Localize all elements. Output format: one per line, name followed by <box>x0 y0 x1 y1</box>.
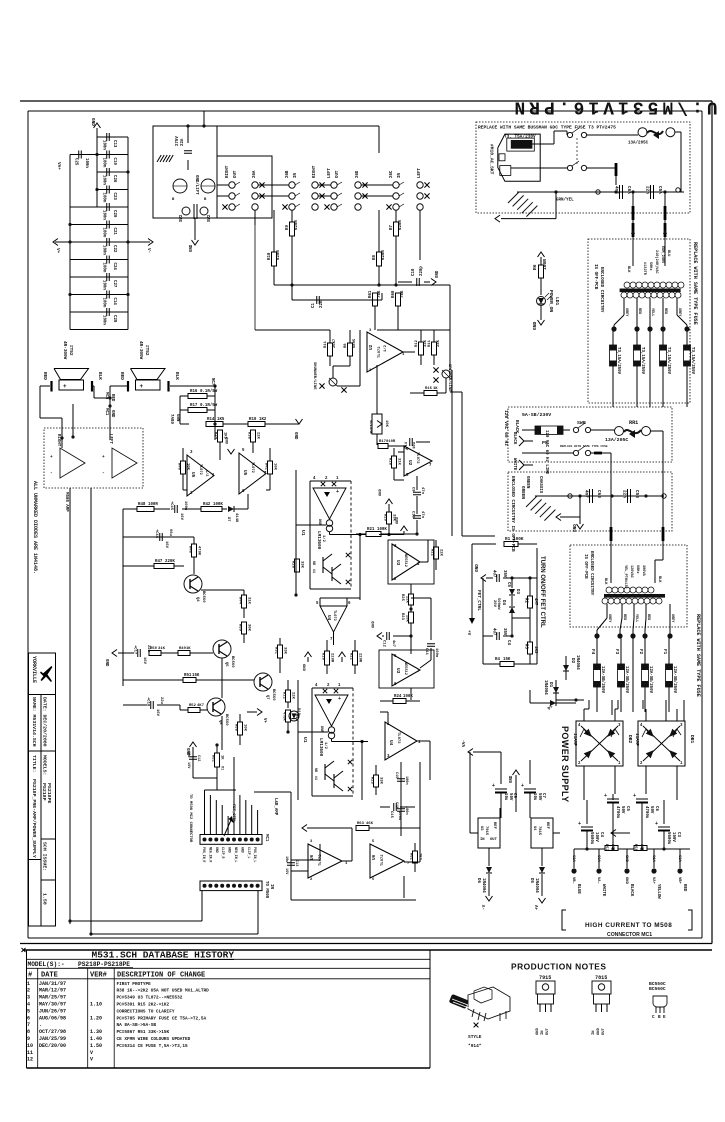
svg-text:GND/LIFT: GND/LIFT <box>194 175 199 195</box>
svg-text:+: + <box>50 455 53 460</box>
svg-text:R23: R23 <box>400 613 404 621</box>
svg-text:4n7: 4n7 <box>584 490 589 498</box>
svg-text:33K: 33K <box>379 777 383 785</box>
svg-text:MAR/12/97: MAR/12/97 <box>39 988 66 994</box>
svg-text:NC7: NC7 <box>210 378 214 386</box>
svg-text:C26: C26 <box>112 175 116 183</box>
svg-text:10K: 10K <box>243 724 247 732</box>
svg-text:100n: 100n <box>397 811 401 821</box>
svg-text:OUT: OUT <box>336 170 340 178</box>
svg-text:C24: C24 <box>112 263 116 271</box>
svg-text:EDM_240V: EDM_240V <box>660 246 664 264</box>
svg-text:U3: U3 <box>395 668 401 674</box>
svg-text:JAN/31/97: JAN/31/97 <box>39 981 66 987</box>
svg-text:YORKVILLE: YORKVILLE <box>31 656 37 683</box>
svg-text:+: + <box>633 793 636 799</box>
svg-text:U3: U3 <box>395 560 401 566</box>
svg-text:TL072: TL072 <box>396 732 400 744</box>
svg-text:U6: U6 <box>309 854 315 860</box>
svg-text:BC560: BC560 <box>224 714 228 726</box>
svg-text:RED: RED <box>663 308 667 314</box>
svg-text:76K: 76K <box>378 290 382 298</box>
svg-text:BLK: BLK <box>174 372 179 380</box>
svg-text:30K: 30K <box>247 624 251 632</box>
svg-text:BLACK: BLACK <box>629 884 633 897</box>
svg-text:X1: X1 <box>220 766 224 770</box>
svg-text:U5: U5 <box>242 470 248 476</box>
svg-text:100R: 100R <box>542 259 548 270</box>
svg-text:STYLE: STYLE <box>468 1034 482 1040</box>
svg-text:R14: R14 <box>214 432 218 440</box>
svg-text:R62: R62 <box>409 853 413 861</box>
svg-text:VA-: VA- <box>463 740 467 747</box>
svg-text:22K: 22K <box>256 432 260 440</box>
svg-text:GND: GND <box>573 524 578 532</box>
svg-text:PC#5867 R51 33K->15K: PC#5867 R51 33K->15K <box>117 1030 170 1035</box>
svg-text:1K: 1K <box>433 387 438 391</box>
svg-text:120VAC: 120VAC <box>629 565 633 579</box>
svg-text:33K: 33K <box>424 339 428 347</box>
svg-text:1K5: 1K5 <box>217 418 225 422</box>
svg-text:GND: GND <box>215 847 219 853</box>
svg-text:RIGHT: RIGHT <box>226 165 230 178</box>
svg-text:BLK: BLK <box>603 578 607 585</box>
svg-text:PC#5349 U3 TL072-->NE5532: PC#5349 U3 TL072-->NE5532 <box>117 996 183 1001</box>
svg-text:NE5512: NE5512 <box>403 662 407 675</box>
svg-text:L&R_AMP: L&R_AMP <box>273 798 277 816</box>
svg-text:C1: C1 <box>312 303 316 308</box>
svg-text:OCT/27/98: OCT/27/98 <box>39 1029 66 1035</box>
svg-text:31K: 31K <box>397 458 401 466</box>
svg-text:R58: R58 <box>234 724 238 732</box>
svg-text:210(240)VAC: 210(240)VAC <box>654 250 659 274</box>
svg-text:SCH ISSUE:: SCH ISSUE: <box>42 842 48 871</box>
svg-text:100K: 100K <box>513 537 524 542</box>
svg-text:+: + <box>578 821 581 827</box>
svg-text:CE XFMR WIRE COLOURS UPDATED: CE XFMR WIRE COLOURS UPDATED <box>117 1037 191 1042</box>
svg-text:R41: R41 <box>264 463 268 471</box>
svg-text:R25: R25 <box>400 594 404 602</box>
svg-text:620R: 620R <box>399 220 403 230</box>
svg-text:+C16: +C16 <box>154 529 158 539</box>
svg-text:TO M508: TO M508 <box>264 881 268 899</box>
svg-text:U2: U2 <box>368 344 374 350</box>
svg-text:NEG_IN_L: NEG_IN_L <box>234 847 238 862</box>
svg-text:26C: 26C <box>390 170 394 178</box>
svg-text:C23: C23 <box>112 193 116 201</box>
svg-text:MAR/25/97: MAR/25/97 <box>39 995 66 1001</box>
svg-text:35V: 35V <box>502 570 506 578</box>
svg-text:50V: 50V <box>508 793 512 801</box>
svg-text:R56: R56 <box>633 844 637 852</box>
svg-text:NB: NB <box>314 768 318 772</box>
svg-text:ENCLOSED CIRCUITRY: ENCLOSED CIRCUITRY <box>589 551 593 596</box>
svg-text:RIGHT: RIGHT <box>56 434 60 447</box>
svg-text:IS OFF-PCB: IS OFF-PCB <box>593 264 598 290</box>
svg-text:R11: R11 <box>324 340 328 348</box>
svg-text:5A-SB/230V: 5A-SB/230V <box>522 412 551 418</box>
svg-text:NAME: M531V14.SCH: NAME: M531V14.SCH <box>31 697 37 747</box>
svg-text:WHITE: WHITE <box>601 884 605 897</box>
svg-text:T3, T5A/230V: T3, T5A/230V <box>504 135 536 140</box>
svg-text:F3: F3 <box>614 649 619 655</box>
svg-text:C: C <box>652 1015 655 1020</box>
svg-text:U4: U4 <box>388 740 394 746</box>
svg-text:50V: 50V <box>649 806 653 814</box>
svg-text:22n: 22n <box>645 186 650 194</box>
svg-text:100n: 100n <box>102 245 106 255</box>
svg-text:SW2: SW2 <box>180 214 184 222</box>
svg-text:BLU: BLU <box>666 250 670 256</box>
svg-text:GND: GND <box>510 775 514 783</box>
svg-text:100n: 100n <box>102 210 106 220</box>
svg-text:10u: 10u <box>532 793 536 801</box>
svg-text:U1: U1 <box>300 530 306 536</box>
svg-text:AUG/06/98: AUG/06/98 <box>39 1015 66 1021</box>
svg-text:620R: 620R <box>295 220 299 230</box>
svg-text:YELLOW: YELLOW <box>656 884 660 899</box>
svg-text:*914*: *914* <box>468 1043 482 1049</box>
svg-text:50V: 50V <box>620 806 624 814</box>
svg-text:11AMP: 11AMP <box>634 733 639 746</box>
svg-text:GND: GND <box>372 620 376 628</box>
svg-text:275V: 275V <box>176 136 180 146</box>
svg-text:+: + <box>655 821 658 827</box>
svg-text:C19: C19 <box>112 158 116 166</box>
svg-text:100K: 100K <box>213 503 223 507</box>
svg-text:12A-SB/250V: 12A-SB/250V <box>648 666 653 694</box>
svg-text:R42: R42 <box>203 503 211 507</box>
svg-text:+: + <box>521 783 524 789</box>
svg-text:1K3: 1K3 <box>533 646 537 654</box>
svg-text:4700u: 4700u <box>644 806 648 819</box>
svg-text:GND: GND <box>301 664 305 672</box>
svg-text:U2: U2 <box>479 826 483 831</box>
svg-text:1.20: 1.20 <box>90 1015 102 1021</box>
svg-text:CONNECTOR MC1: CONNECTOR MC1 <box>607 932 652 938</box>
svg-text:R59: R59 <box>238 624 242 632</box>
svg-text:.: . <box>39 1022 42 1028</box>
svg-text:C6: C6 <box>654 806 658 811</box>
svg-text:4n7: 4n7 <box>614 186 619 194</box>
svg-text:R12: R12 <box>282 692 286 700</box>
svg-text:PC#5391 R15 2K2->1K2: PC#5391 R15 2K2->1K2 <box>117 1003 170 1008</box>
svg-text:C10: C10 <box>411 511 415 519</box>
svg-text:15K: 15K <box>503 658 511 662</box>
svg-text:Q7: Q7 <box>265 695 269 700</box>
svg-text:OUT: OUT <box>234 170 238 178</box>
svg-text:12A-SB/250V: 12A-SB/250V <box>624 666 629 694</box>
svg-text:50V: 50V <box>537 793 541 801</box>
svg-text:33K: 33K <box>283 647 287 655</box>
svg-text:CLIP_R: CLIP_R <box>221 847 225 859</box>
svg-text:JAN/25/99: JAN/25/99 <box>39 1036 66 1042</box>
svg-text:TL072: TL072 <box>332 610 336 621</box>
svg-text:PS218PE: PS218PE <box>46 783 52 803</box>
svg-text:CORRECTIONS TO CLARIFY: CORRECTIONS TO CLARIFY <box>117 1009 175 1014</box>
svg-text:RIGHT: RIGHT <box>313 165 317 178</box>
svg-text:61A: 61A <box>651 855 655 863</box>
svg-text:R52: R52 <box>189 704 197 708</box>
svg-text:POS_IN_R: POS_IN_R <box>202 847 206 862</box>
svg-text:66u: 66u <box>168 529 172 537</box>
svg-text:12A-SB/250V: 12A-SB/250V <box>672 666 677 694</box>
svg-text:C15: C15 <box>389 811 393 819</box>
svg-text:4R-300W: 4R-300W <box>138 341 143 360</box>
svg-text:C11: C11 <box>424 648 428 656</box>
svg-text:OUT: OUT <box>602 1027 606 1035</box>
svg-text:2: 2 <box>27 988 30 994</box>
svg-text:C28: C28 <box>112 315 116 323</box>
svg-text:910R: 910R <box>386 440 396 444</box>
svg-text:22K: 22K <box>439 549 443 557</box>
svg-text:+: + <box>102 455 105 460</box>
svg-text:D1: D1 <box>548 682 553 688</box>
svg-text:GND: GND <box>475 564 480 572</box>
svg-text:7915: 7915 <box>539 975 551 981</box>
svg-text:0.1R/5W: 0.1R/5W <box>200 389 218 394</box>
svg-text:JUN/26/97: JUN/26/97 <box>39 1008 66 1014</box>
svg-text:MC1: MC1 <box>104 408 108 416</box>
svg-text:63A: 63A <box>677 855 681 863</box>
svg-text:R51: R51 <box>184 674 192 678</box>
svg-text:D4: D4 <box>501 600 505 605</box>
svg-text:TL072: TL072 <box>381 854 385 866</box>
svg-text:7A89: 7A89 <box>169 414 173 424</box>
svg-text:IN: IN <box>269 884 273 889</box>
svg-text:BLK: BLK <box>657 576 661 583</box>
svg-text:#T52: #T52 <box>68 345 73 356</box>
svg-text:10u: 10u <box>413 441 417 449</box>
svg-text:22K: 22K <box>291 692 295 700</box>
svg-text:VA+: VA+ <box>56 162 61 170</box>
svg-text:R6: R6 <box>532 264 538 270</box>
svg-text:TITLE:: TITLE: <box>31 755 37 773</box>
svg-text:1.10: 1.10 <box>90 1002 102 1008</box>
svg-text:-V: -V <box>482 904 487 910</box>
svg-text:RED: RED <box>110 394 114 402</box>
svg-text:R51: R51 <box>211 755 215 763</box>
svg-text:F2: F2 <box>638 649 643 655</box>
svg-text:U1: U1 <box>532 826 536 831</box>
svg-text:V+: V+ <box>55 248 60 254</box>
svg-text:D2: D2 <box>570 658 575 664</box>
svg-text:V-: V- <box>146 248 151 253</box>
svg-text:R40: R40 <box>177 463 181 471</box>
svg-text:V: V <box>90 1057 93 1063</box>
svg-text:TL072: TL072 <box>378 346 382 358</box>
svg-text:C6B: C6B <box>596 490 601 498</box>
svg-text:1K: 1K <box>186 647 191 651</box>
svg-text:PC#5785 PRIMARY FUSE CE T5A->T: PC#5785 PRIMARY FUSE CE T5A->T2,5A <box>117 1016 207 1021</box>
svg-text:47n: 47n <box>420 511 424 519</box>
svg-text:BLK: BLK <box>626 266 630 273</box>
svg-text:TL072: TL072 <box>250 462 254 473</box>
svg-text:GRN: GRN <box>175 414 179 422</box>
svg-text:D3: D3 <box>515 589 519 594</box>
svg-text:BC560C: BC560C <box>649 986 666 992</box>
svg-text:F4: F4 <box>590 649 595 655</box>
svg-text:7815: 7815 <box>537 826 541 836</box>
svg-text:1.40: 1.40 <box>90 1036 102 1042</box>
svg-text:16V: 16V <box>164 541 168 549</box>
svg-text:22K: 22K <box>405 596 409 604</box>
svg-text:GREY: GREY <box>607 614 611 623</box>
svg-text:35V: 35V <box>502 628 506 636</box>
svg-text:R48: R48 <box>138 503 146 507</box>
svg-text:1.50: 1.50 <box>90 1043 102 1049</box>
svg-text:GRN/YEL: GRN/YEL <box>556 198 574 203</box>
svg-text:4u7: 4u7 <box>492 628 496 636</box>
svg-text:-: - <box>50 471 53 476</box>
svg-text:100n: 100n <box>102 140 106 150</box>
svg-text:47n: 47n <box>420 487 424 495</box>
svg-text:12: 12 <box>27 1057 33 1063</box>
svg-text:E: E <box>663 1015 666 1020</box>
svg-text:6: 6 <box>27 1015 30 1021</box>
svg-text:100n: 100n <box>102 158 106 168</box>
svg-text:B: B <box>658 1015 661 1020</box>
svg-text:REF: REF <box>492 822 496 830</box>
svg-text:D10: D10 <box>296 708 300 716</box>
svg-text:+: + <box>492 783 495 789</box>
svg-text:GND: GND <box>104 659 108 667</box>
svg-text:100n: 100n <box>102 228 106 238</box>
svg-text:100K: 100K <box>377 528 387 532</box>
svg-text:R28: R28 <box>291 561 295 569</box>
svg-text:16V: 16V <box>284 868 288 875</box>
svg-text:26B: 26B <box>286 170 290 178</box>
svg-text:RED: RED <box>622 614 626 620</box>
svg-text:YEL_PTH#132: YEL_PTH#132 <box>623 565 627 589</box>
svg-text:C21: C21 <box>112 228 116 236</box>
svg-text:D5: D5 <box>529 878 533 883</box>
svg-text:T3,15A/250V: T3,15A/250V <box>666 347 671 375</box>
svg-text:8: 8 <box>27 1029 30 1035</box>
svg-text:1/2: 1/2 <box>383 344 388 352</box>
svg-text:R38 1K-->2K2 U5A NOT USED MX1_: R38 1K-->2K2 U5A NOT USED MX1_ALTRD <box>117 989 210 994</box>
svg-text:7: 7 <box>27 1022 30 1028</box>
svg-text:120 VAC 60 Hz LINE: 120 VAC 60 Hz LINE <box>544 430 548 475</box>
svg-text:22u: 22u <box>159 697 163 705</box>
svg-text:620R: 620R <box>277 250 281 260</box>
svg-text:GREEN: GREEN <box>525 476 529 489</box>
svg-text:1.50: 1.50 <box>42 893 48 905</box>
svg-text:Q6: Q6 <box>218 720 222 725</box>
svg-text:C14: C14 <box>405 441 409 449</box>
svg-text:10K: 10K <box>273 463 277 471</box>
svg-text:4M7: 4M7 <box>533 598 537 606</box>
svg-text:100n: 100n <box>102 193 106 203</box>
svg-text:R20: R20 <box>383 514 387 522</box>
svg-text:C27: C27 <box>112 280 116 288</box>
svg-text:R10: R10 <box>321 653 325 661</box>
svg-text:C14: C14 <box>112 298 116 306</box>
svg-text:3: 3 <box>27 995 30 1001</box>
svg-text:100n: 100n <box>404 776 408 785</box>
svg-text:26K7: 26K7 <box>333 338 337 348</box>
svg-text:7915: 7915 <box>484 826 488 836</box>
svg-text:R17: R17 <box>190 404 198 408</box>
svg-text:VOLUME: VOLUME <box>368 420 372 434</box>
svg-text:#132TR: #132TR <box>642 262 646 276</box>
svg-text:GREY: GREY <box>624 308 628 317</box>
svg-text:#M10_AC_SKT: #M10_AC_SKT <box>488 144 494 175</box>
svg-text:REPLACE WITH SAME TYPE FUSE: REPLACE WITH SAME TYPE FUSE <box>692 242 698 325</box>
svg-text:4u7: 4u7 <box>492 570 496 578</box>
svg-text:10u: 10u <box>284 856 288 862</box>
svg-text:4R-300W: 4R-300W <box>62 341 67 360</box>
svg-text:1N4004: 1N4004 <box>543 680 547 695</box>
svg-text:1/2: 1/2 <box>204 470 209 476</box>
svg-text:TL072: TL072 <box>415 452 419 464</box>
svg-text:DESCRIPTION OF CHANGE: DESCRIPTION OF CHANGE <box>117 972 205 980</box>
svg-text:Q4: Q4 <box>195 597 199 602</box>
svg-text:GND: GND <box>624 855 628 863</box>
svg-text:C12: C12 <box>382 640 386 648</box>
svg-text:22n: 22n <box>181 138 185 146</box>
svg-text:25K: 25K <box>405 615 409 623</box>
svg-text:PS218P-PS218PE: PS218P-PS218PE <box>78 961 130 968</box>
svg-text:LEFT: LEFT <box>418 168 422 178</box>
svg-text:ENCLOSED CIRCUITRY: ENCLOSED CIRCUITRY <box>599 267 604 313</box>
svg-text:NE5512: NE5512 <box>403 554 407 567</box>
svg-text:R38: R38 <box>247 432 251 440</box>
svg-text:C9: C9 <box>411 487 415 492</box>
svg-text:POWER SUPPLY: POWER SUPPLY <box>560 726 570 802</box>
svg-text:GND: GND <box>190 244 194 252</box>
svg-text:GND: GND <box>532 321 538 330</box>
svg-text:FIRST PROTYPE: FIRST PROTYPE <box>117 982 152 987</box>
svg-text:60A: 60A <box>596 855 600 863</box>
svg-text:Q5: Q5 <box>224 662 228 667</box>
svg-text:C4: C4 <box>506 640 510 645</box>
svg-text:C6A: C6A <box>626 186 631 194</box>
svg-text:120 VAC 60 Hz: 120 VAC 60 Hz <box>503 410 509 446</box>
svg-text:R4: R4 <box>495 658 500 662</box>
svg-text:C4: C4 <box>599 832 603 837</box>
svg-text:C5A: C5A <box>657 186 662 194</box>
svg-text:YELL: YELL <box>634 614 638 622</box>
svg-text:4K7: 4K7 <box>197 704 205 708</box>
svg-text:GND: GND <box>624 877 628 885</box>
svg-text:100n: 100n <box>102 263 106 273</box>
svg-text:C20: C20 <box>112 210 116 218</box>
svg-text:T3,15A/250V: T3,15A/250V <box>640 347 645 375</box>
svg-text:HIGH CURRENT TO M508: HIGH CURRENT TO M508 <box>585 922 672 929</box>
svg-text:GND: GND <box>110 410 114 418</box>
svg-text:R1: R1 <box>505 537 511 542</box>
svg-text:R12: R12 <box>415 339 419 347</box>
svg-text:GREY: GREY <box>670 614 674 623</box>
svg-text:POS_IN_L: POS_IN_L <box>253 847 257 862</box>
svg-text:33K: 33K <box>392 514 396 522</box>
svg-text:T3,15A/250V: T3,15A/250V <box>690 347 695 375</box>
svg-text:R60: R60 <box>392 290 396 298</box>
svg-text:46K: 46K <box>366 822 374 826</box>
svg-text:4: 4 <box>27 1002 30 1008</box>
svg-text:R21: R21 <box>367 528 375 532</box>
svg-text:#1: #1 <box>312 569 316 573</box>
svg-text:R18: R18 <box>388 458 392 466</box>
svg-text:16V: 16V <box>186 762 190 769</box>
svg-text:U4: U4 <box>326 615 331 621</box>
svg-text:26D: 26D <box>356 170 360 178</box>
svg-text:IN: IN <box>398 173 402 178</box>
svg-text:RED: RED <box>637 308 641 314</box>
svg-text:1/2: 1/2 <box>321 535 326 543</box>
svg-text:24K: 24K <box>437 339 441 347</box>
